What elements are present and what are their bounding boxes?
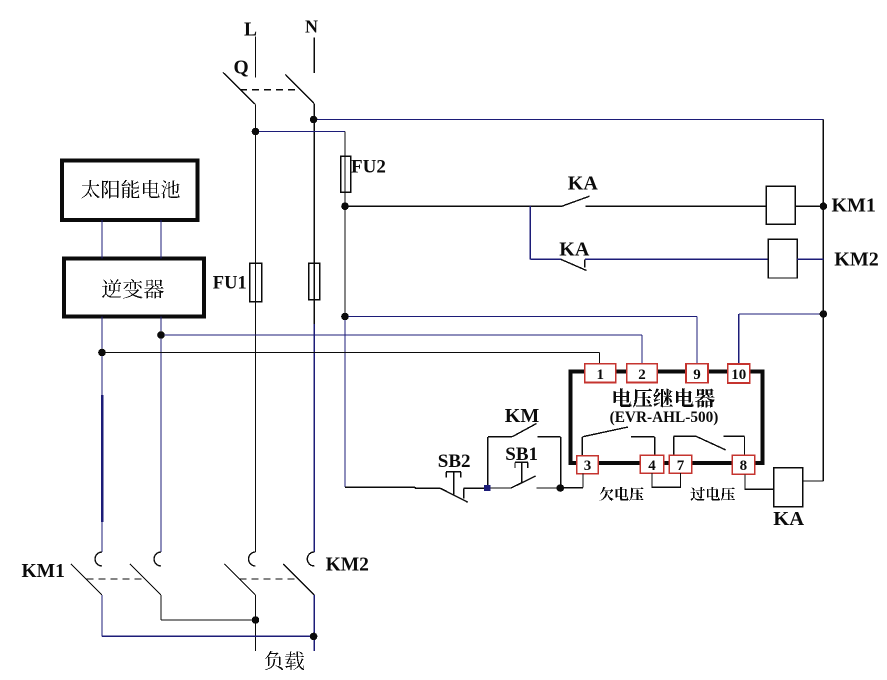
svg-text:2: 2 [638, 367, 646, 383]
svg-text:KM1: KM1 [22, 561, 65, 582]
svg-text:10: 10 [731, 367, 746, 383]
svg-text:1: 1 [597, 367, 605, 383]
svg-text:Q: Q [234, 57, 249, 78]
svg-text:KA: KA [568, 173, 599, 195]
svg-text:N: N [305, 17, 318, 37]
svg-text:KA: KA [559, 238, 590, 260]
svg-text:KM: KM [505, 405, 540, 427]
svg-text:SB1: SB1 [505, 444, 538, 465]
svg-text:4: 4 [648, 458, 656, 474]
svg-text:KM1: KM1 [832, 195, 876, 217]
svg-text:(EVR-AHL-500): (EVR-AHL-500) [610, 409, 719, 426]
svg-text:KM2: KM2 [326, 554, 369, 575]
svg-text:KA: KA [773, 508, 804, 530]
svg-text:KM2: KM2 [834, 248, 878, 270]
svg-text:3: 3 [584, 458, 592, 474]
svg-text:FU1: FU1 [213, 274, 247, 294]
svg-text:8: 8 [740, 458, 748, 474]
svg-text:9: 9 [693, 367, 701, 383]
svg-text:L: L [244, 20, 257, 41]
svg-text:FU2: FU2 [351, 156, 386, 177]
svg-text:7: 7 [677, 458, 685, 474]
svg-text:SB2: SB2 [438, 451, 471, 472]
